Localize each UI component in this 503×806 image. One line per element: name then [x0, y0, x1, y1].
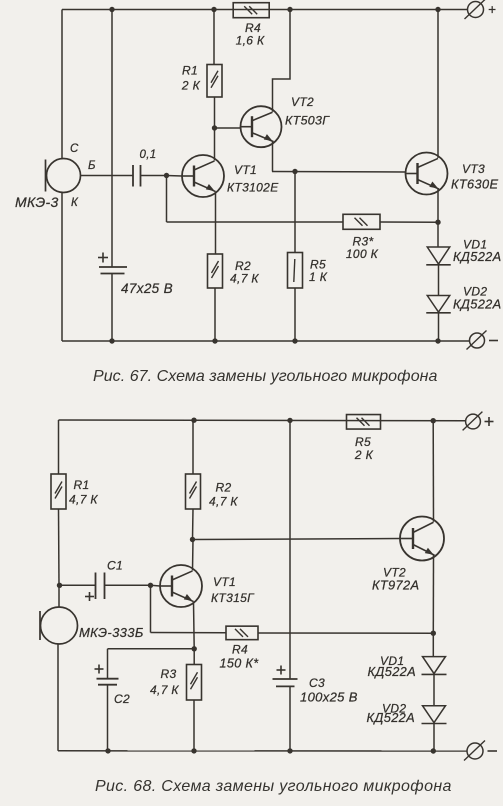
diode VD2 fig68 — [422, 706, 447, 724]
wire cap to ground rail — [111, 274, 113, 342]
transistor VT1 — [182, 155, 224, 197]
label + polarity C2 — [95, 665, 104, 674]
node ground rail / R2 — [212, 338, 217, 343]
label VT1 type KT3102E — [227, 181, 279, 195]
node top rail / VT2 collector fig68 — [431, 418, 436, 423]
wire mic B lead to coupling cap — [81, 175, 134, 177]
svg-text:1,6 К: 1,6 К — [236, 34, 265, 48]
svg-text:КД522А: КД522А — [367, 710, 416, 725]
wire mic bottom to ground rail — [61, 193, 63, 342]
node VT2 emitter / R4 junction fig68 — [431, 631, 436, 636]
label VT1 fig68 — [213, 575, 236, 589]
node ground rail / VD2 fig68 — [431, 748, 436, 753]
label mic pin K — [71, 197, 79, 209]
label R5 fig67 — [310, 258, 326, 272]
svg-text:R4: R4 — [232, 643, 248, 657]
wire bottom ground rail fig.67 — [62, 340, 469, 342]
resistor R3 fig68 — [187, 649, 202, 751]
svg-text:КД522А: КД522А — [368, 664, 417, 679]
label mic pin B — [88, 160, 96, 172]
label VD2 type fig68 — [367, 710, 416, 725]
resistor R4 — [233, 3, 269, 18]
caption fig.67 — [93, 368, 438, 385]
wire VT1 base feedback down — [166, 176, 168, 223]
svg-text:R3: R3 — [161, 667, 177, 681]
wire VT1 emitter down fig68 — [193, 602, 196, 649]
node junction R1 bottom / VT1 collector / VT2 base — [212, 125, 217, 130]
label + fig.67 — [488, 2, 496, 17]
label R5 fig68 — [355, 435, 371, 449]
wire VT1 collector up fig68 — [192, 540, 195, 571]
svg-text:КТ630Е: КТ630Е — [451, 177, 498, 192]
label MKE-333B — [79, 625, 144, 640]
label VT2 type KT972A — [372, 578, 419, 593]
resistor R5 fig68 — [347, 415, 381, 430]
transistor VT1 fig68 — [160, 565, 202, 607]
svg-text:VT1: VT1 — [234, 163, 257, 177]
resistor R2 — [208, 254, 223, 341]
svg-text:4,7 К: 4,7 К — [230, 272, 259, 286]
wire R2 junction to VT2 base fig68 — [193, 539, 401, 540]
svg-text:1 К: 1 К — [309, 270, 328, 284]
svg-text:КТ3102Е: КТ3102Е — [227, 181, 279, 195]
microphone MKE-3 body — [46, 159, 81, 193]
wire cap to VT1 base node — [141, 175, 167, 177]
wire VT2 emitter down — [272, 142, 274, 172]
node VT1 emitter / R3 / C2 junction — [192, 646, 197, 651]
capacitor C3 — [273, 679, 298, 686]
svg-text:МКЭ-333Б: МКЭ-333Б — [79, 625, 144, 640]
label R1 value 2 K — [181, 79, 201, 93]
wire mic bottom to ground fig68 — [57, 644, 59, 751]
label C3 — [309, 676, 325, 690]
svg-text:КТ315Г: КТ315Г — [211, 591, 255, 605]
label R3 value 100 K — [346, 247, 379, 261]
label R1 fig68 — [74, 478, 90, 492]
svg-text:VT2: VT2 — [291, 95, 314, 109]
node VT3 emitter junction — [435, 220, 440, 225]
label C2 — [114, 692, 130, 706]
wire VT3 emitter to VD1 — [437, 222, 439, 247]
wire VT1 base feedback down fig68 — [150, 585, 152, 632]
wire VT2 emitter row to VT3 base — [272, 171, 406, 174]
capacitor C1 — [96, 573, 105, 600]
label - fig.67 — [489, 340, 498, 342]
node top rail / R2 column fig68 — [191, 418, 196, 423]
wire mic top lead fig68 — [58, 585, 60, 607]
capacitor 47x25V — [99, 267, 127, 274]
svg-text:КТ503Г: КТ503Г — [285, 114, 330, 128]
wire C2 drop — [107, 649, 109, 679]
wire R1 junction to VT2 base — [215, 127, 241, 129]
node junction emitter row / R5 — [292, 169, 297, 174]
wire bottom ground rail fig.68 — [58, 750, 467, 752]
label VD1 type KD522A — [453, 249, 502, 264]
wire VD1 to VD2 fig68 — [433, 675, 435, 706]
node ground rail / R5 — [292, 338, 297, 343]
svg-text:Рис. 68. Схема замены угольног: Рис. 68. Схема замены угольного микрофон… — [95, 778, 452, 795]
wire VT2 emitter down fig68 — [432, 555, 434, 633]
label + fig.68 — [485, 417, 494, 426]
svg-text:С3: С3 — [309, 676, 325, 690]
label VD1 fig68 — [380, 654, 404, 668]
wire base node to VT1 fig68 — [151, 584, 161, 587]
svg-text:R5: R5 — [355, 435, 371, 449]
label R4 fig68 — [232, 643, 248, 657]
wire top supply rail fig.68 — [59, 419, 466, 422]
wire emitter node to C2 — [108, 648, 195, 650]
svg-text:150 К*: 150 К* — [220, 657, 260, 671]
label R2 fig68 — [216, 481, 232, 495]
node junction top rail / R1 column — [211, 7, 216, 12]
wire mic collector column (left) — [61, 10, 63, 159]
svg-text:0,1: 0,1 — [139, 149, 156, 161]
label R3* — [352, 235, 373, 249]
label VT1 type KT315G — [211, 591, 255, 605]
label mic pin C — [70, 143, 79, 155]
label R2 — [235, 259, 251, 273]
svg-text:47х25 В: 47х25 В — [121, 281, 173, 296]
label + polarity C1 — [85, 592, 94, 601]
transistor VT2 — [241, 106, 282, 147]
label R4 value 150 K* — [220, 657, 260, 671]
label R4 value 1,6 K — [236, 34, 265, 48]
svg-text:КТ972А: КТ972А — [372, 578, 419, 593]
svg-text:К: К — [71, 197, 79, 209]
node ground rail / cap column — [109, 338, 114, 343]
label VT3 — [462, 162, 485, 176]
capacitor 0,1 coupling — [133, 165, 141, 187]
terminal - fig.67 — [467, 331, 487, 350]
node VT1 base junction fig68 — [148, 583, 153, 588]
wire VD1 to VD2 — [438, 265, 440, 296]
wire base node to VT1 — [167, 175, 183, 178]
label C1 — [107, 559, 123, 573]
capacitor C2 — [97, 679, 119, 685]
terminal - fig.68 — [464, 741, 485, 761]
resistor R1 fig68 — [51, 420, 66, 585]
wire VT2 collector up fig68 — [432, 421, 434, 522]
label R5 value 2 K — [354, 448, 374, 462]
label MKE-3 — [15, 194, 59, 210]
svg-text:VT1: VT1 — [213, 575, 236, 589]
wire VD2 to ground fig68 — [433, 724, 435, 751]
node ground rail / C2 fig68 — [105, 748, 110, 753]
label R5 value 1 K — [309, 270, 328, 284]
node mic / R1 / C1 junction fig68 — [57, 583, 62, 588]
wire VT1 emitter down to R2 — [215, 192, 217, 254]
node ground rail / C3 fig68 — [287, 748, 292, 753]
svg-text:С2: С2 — [114, 692, 130, 706]
label R1 — [182, 64, 198, 78]
transistor VT3 — [406, 153, 448, 195]
terminal + fig.67 — [465, 0, 486, 19]
svg-text:4,7 К: 4,7 К — [150, 683, 179, 697]
resistor R4 fig68 — [226, 626, 258, 640]
wire VT3 collector to top rail — [437, 10, 439, 158]
terminal + fig.68 — [463, 412, 483, 431]
node junction top rail / VT3 collector column — [435, 7, 440, 12]
svg-text:4,7 К: 4,7 К — [209, 495, 238, 509]
svg-text:4,7 К: 4,7 К — [69, 493, 98, 507]
wire R4 to VT2 emitter node fig68 — [258, 632, 433, 634]
transistor VT2 fig68 — [400, 517, 444, 561]
label VT2 fig68 — [383, 566, 406, 580]
svg-text:С: С — [70, 143, 79, 155]
label VD1 type fig68 — [368, 664, 417, 679]
svg-text:Б: Б — [88, 160, 96, 172]
wire top supply rail fig.67 — [62, 9, 468, 11]
caption fig.68 — [95, 778, 452, 795]
wire C3 to ground fig68 — [289, 686, 291, 750]
svg-text:Рис. 67. Схема замены угольног: Рис. 67. Схема замены угольного микрофон… — [93, 368, 438, 385]
node ground rail / R3 fig68 — [191, 748, 196, 753]
wire C3 column fig68 — [289, 420, 291, 678]
svg-text:КД522А: КД522А — [453, 249, 502, 264]
wire cap column from top rail — [111, 10, 113, 268]
label + polarity C 47x25V — [98, 253, 108, 263]
wire emitter node to VD1 fig68 — [432, 633, 434, 656]
svg-text:100х25 В: 100х25 В — [300, 690, 358, 705]
label VT2 type KT503G — [285, 114, 330, 128]
node junction top rail / mic column — [109, 7, 114, 12]
label VD2 fig67 — [463, 285, 487, 299]
wire C1 to VT1 base node fig68 — [105, 584, 151, 586]
wire VT3 emitter down — [437, 189, 439, 222]
label VD2 type KD522A — [453, 297, 502, 312]
wire VD2 to ground rail — [438, 313, 440, 342]
label VT2 — [291, 95, 314, 109]
wire VT2 collector to top rail — [273, 10, 291, 112]
label VT3 type KT630E — [451, 177, 498, 192]
label R3 fig68 — [161, 667, 177, 681]
label + polarity C3 — [277, 666, 286, 675]
diode VD2 fig67 — [426, 296, 451, 313]
node R2 / VT1 collector junction fig68 — [190, 537, 195, 542]
label R2 value fig68 — [209, 495, 238, 509]
svg-text:2 К: 2 К — [181, 79, 201, 93]
svg-text:+: + — [488, 2, 496, 17]
label VD2 fig68 — [382, 702, 406, 716]
diode VD1 fig68 — [422, 657, 447, 675]
label R1 value fig68 — [69, 493, 98, 507]
resistor R2 fig68 — [186, 420, 201, 540]
svg-text:МКЭ-3: МКЭ-3 — [15, 194, 59, 210]
label C3 value 100x25 V — [300, 690, 358, 705]
label R4 — [245, 21, 261, 35]
wire VT1 collector up to R1 junction — [214, 128, 216, 160]
resistor R1 — [207, 10, 222, 129]
label 0,1 — [139, 149, 156, 161]
wire feedback row to R3 — [167, 221, 344, 223]
wire R3 to VT3 emitter node — [380, 221, 438, 223]
svg-text:R1: R1 — [182, 64, 198, 78]
wire junction to C1 — [60, 584, 96, 586]
resistor R5 fig67 — [288, 172, 303, 342]
microphone MKE-333B body — [40, 607, 78, 644]
label R3 value fig68 — [150, 683, 179, 697]
node ground rail / VD2 — [435, 338, 440, 343]
svg-text:R1: R1 — [74, 478, 90, 492]
diode VD1 fig67 — [426, 247, 451, 265]
svg-text:VT3: VT3 — [462, 162, 485, 176]
svg-text:100 К: 100 К — [346, 247, 379, 261]
svg-text:С1: С1 — [107, 559, 123, 573]
label VD1 fig67 — [463, 238, 487, 252]
node VT1 base junction — [164, 173, 169, 178]
wire feedback row to R4 fig68 — [151, 632, 227, 634]
svg-text:2 К: 2 К — [354, 448, 374, 462]
label 47x25 V value — [121, 281, 173, 296]
svg-text:КД522А: КД522А — [453, 297, 502, 312]
node top rail / C3 column fig68 — [287, 418, 292, 423]
svg-text:R2: R2 — [216, 481, 232, 495]
node junction top rail / VT2 collector column — [287, 7, 292, 12]
label - fig.68 — [488, 750, 498, 752]
label R2 value 4,7 K — [230, 272, 259, 286]
label VT1 — [234, 163, 257, 177]
resistor R3* — [343, 214, 380, 229]
wire C2 to ground fig68 — [107, 685, 109, 751]
